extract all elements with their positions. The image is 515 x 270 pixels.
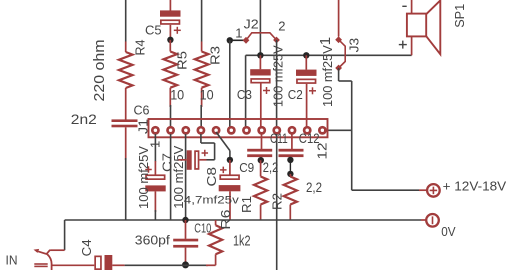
wire C7 to ground bus <box>154 210 156 220</box>
capacitor C9 <box>229 160 231 175</box>
resistor R6 <box>215 220 217 225</box>
svg-text:1: 1 <box>317 37 334 45</box>
svg-text:1k2: 1k2 <box>233 233 251 250</box>
wire C12 to R2 <box>289 160 291 174</box>
terminal 0V <box>426 214 439 227</box>
svg-text:R4: R4 <box>133 40 148 56</box>
svg-text:100 mf25V: 100 mf25V <box>271 45 286 107</box>
wire pad 3 to ground bus <box>185 134 187 220</box>
svg-text:R1: R1 <box>239 196 254 213</box>
minus mark of SP1 <box>402 5 406 7</box>
pads 1-12 of J1 <box>152 127 158 133</box>
svg-text:2n2: 2n2 <box>71 111 97 127</box>
wire net to R4 top <box>125 0 127 42</box>
plus mark of SP1 <box>399 44 407 46</box>
svg-text:100 mf25V: 100 mf25V <box>136 146 151 209</box>
svg-text:J3: J3 <box>347 38 362 53</box>
resistor R5 <box>169 40 171 52</box>
wire J3 pin2 to supply rail <box>338 68 340 81</box>
resistor R2 <box>289 174 291 177</box>
svg-text:R6: R6 <box>218 210 233 230</box>
wire J2 junction to pad 6 <box>229 40 231 128</box>
svg-text:C2: C2 <box>288 87 303 102</box>
svg-text:SP1: SP1 <box>452 4 467 28</box>
connector J1 outline <box>149 119 328 137</box>
wire C6 to ground bus <box>125 158 127 220</box>
svg-text:220 ohm: 220 ohm <box>91 40 108 102</box>
wire pad 5 to C9 <box>216 132 230 151</box>
svg-text:C6: C6 <box>134 103 150 118</box>
wire IN tip <box>50 249 65 251</box>
jumper J2 <box>243 37 250 44</box>
wire speaker net to pad 7 <box>245 55 247 128</box>
svg-text:100 mf25V: 100 mf25V <box>320 45 335 107</box>
svg-text:2: 2 <box>278 19 285 34</box>
svg-text:10: 10 <box>200 86 214 102</box>
node J2 pin1 junction <box>227 37 233 43</box>
resistor R3 <box>201 42 203 52</box>
capacitor C12 <box>291 134 293 149</box>
capacitor C11 <box>261 134 263 149</box>
capacitor C10 <box>185 220 187 239</box>
node C11/R1 junction <box>258 157 264 163</box>
resistor R1 <box>260 160 262 176</box>
svg-text:C12: C12 <box>299 131 320 146</box>
wire net to J3 pin1 <box>338 0 340 37</box>
svg-text:4,7mf25v: 4,7mf25v <box>184 195 240 207</box>
speaker SP1 <box>407 14 426 37</box>
node C10 bottom junction <box>182 261 189 268</box>
capacitor C2 <box>305 55 307 69</box>
capacitor C7 <box>154 161 156 175</box>
svg-text:C5: C5 <box>145 23 162 38</box>
svg-text:J2: J2 <box>244 17 259 32</box>
wire pad 12 to supply rail <box>324 129 352 131</box>
wire supply rail to terminal <box>352 189 419 191</box>
jumper J3 <box>335 36 342 43</box>
terminal +12V-18V <box>427 184 440 197</box>
svg-text:360pf: 360pf <box>135 233 170 248</box>
wire pad 1 to C7 <box>154 134 156 162</box>
wire pad 2 to ground bus <box>170 134 172 220</box>
capacitor C5 <box>169 0 171 11</box>
svg-text:J1: J1 <box>136 119 151 134</box>
capacitor C4 <box>95 256 101 269</box>
connector IN jack <box>36 251 47 254</box>
capacitor C6 <box>112 119 138 122</box>
wire R3 to pad 4 <box>200 105 202 128</box>
wire R5 to pad 2 <box>170 105 172 128</box>
svg-text:2,2: 2,2 <box>306 179 322 195</box>
node C10 top junction <box>182 217 188 223</box>
node C12 junction <box>287 157 293 163</box>
svg-text:C4: C4 <box>79 239 94 256</box>
svg-text:R5: R5 <box>175 51 190 70</box>
wire input rail right <box>125 264 208 266</box>
svg-text:C8: C8 <box>204 167 219 187</box>
svg-text:10: 10 <box>170 86 184 102</box>
wire pad 9 down <box>276 134 278 270</box>
wire C8 to pad 4 <box>207 159 215 161</box>
node C2 top junction <box>303 52 309 58</box>
node C9 top junction <box>227 157 233 163</box>
resistor R4 <box>125 42 127 53</box>
capacitor C3 <box>259 55 261 69</box>
svg-text:R3: R3 <box>208 46 223 65</box>
wire speaker net <box>246 54 412 56</box>
wire input rail left <box>52 264 95 266</box>
svg-text:C9: C9 <box>239 160 254 175</box>
svg-text:+ 12V-18V: + 12V-18V <box>443 179 507 194</box>
svg-text:C3: C3 <box>237 87 252 102</box>
svg-text:C11: C11 <box>270 131 288 146</box>
wire net to J2 <box>259 0 261 55</box>
wire net to R3 top <box>201 0 203 42</box>
wire J2 pin2 to pad 9 <box>276 40 278 128</box>
node C5/R5 junction <box>167 37 173 43</box>
capacitor C8 <box>187 150 192 170</box>
svg-text:IN: IN <box>6 252 18 267</box>
svg-text:0V: 0V <box>441 224 456 239</box>
wire ground bus left drop <box>64 220 66 250</box>
node R2 top junction <box>287 171 293 177</box>
svg-text:1: 1 <box>235 25 242 40</box>
node C3 top junction <box>257 52 263 58</box>
wire ground bus <box>65 219 421 221</box>
